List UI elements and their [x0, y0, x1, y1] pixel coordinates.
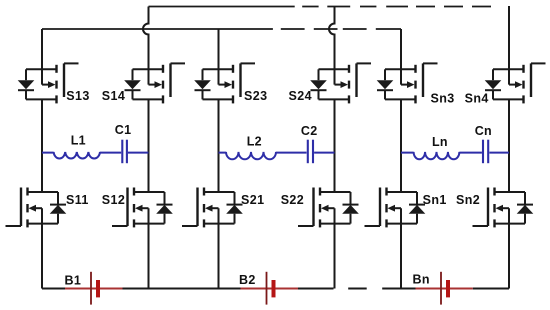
svg-text:L1: L1	[71, 133, 86, 147]
svg-text:S22: S22	[281, 193, 304, 207]
svg-text:Sn4: Sn4	[465, 91, 489, 105]
svg-text:S14: S14	[102, 89, 125, 103]
svg-text:Bn: Bn	[413, 273, 430, 287]
svg-text:L2: L2	[247, 135, 262, 149]
svg-text:S13: S13	[66, 89, 89, 103]
svg-text:S21: S21	[241, 193, 264, 207]
svg-text:C1: C1	[115, 123, 132, 137]
svg-text:Sn3: Sn3	[431, 91, 455, 105]
svg-text:Sn1: Sn1	[423, 193, 447, 207]
svg-text:B2: B2	[239, 273, 256, 287]
svg-text:B1: B1	[65, 273, 82, 287]
svg-text:S12: S12	[102, 193, 125, 207]
svg-text:C2: C2	[301, 124, 318, 138]
svg-text:S23: S23	[244, 89, 267, 103]
svg-text:S11: S11	[66, 193, 89, 207]
svg-text:S24: S24	[289, 89, 312, 103]
svg-text:Sn2: Sn2	[456, 193, 480, 207]
svg-text:Cn: Cn	[475, 124, 492, 138]
svg-text:Ln: Ln	[432, 135, 448, 149]
